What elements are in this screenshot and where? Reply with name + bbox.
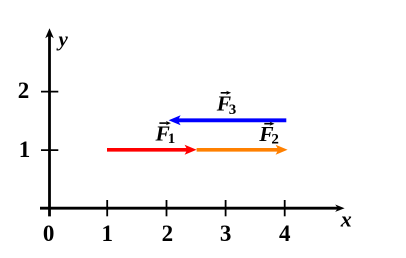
x-axis bbox=[40, 205, 345, 212]
svg-text:1: 1 bbox=[168, 131, 176, 147]
vector F3 (blue) bbox=[169, 115, 287, 125]
label F1 bbox=[155, 121, 176, 147]
svg-text:0: 0 bbox=[43, 221, 55, 246]
svg-text:2: 2 bbox=[162, 221, 174, 246]
svg-text:2: 2 bbox=[18, 78, 30, 103]
y-axis bbox=[45, 28, 54, 216]
vector F1 (red) bbox=[107, 145, 197, 155]
svg-text:3: 3 bbox=[229, 102, 237, 118]
x tick 2 bbox=[166, 200, 168, 216]
x tick 4 bbox=[284, 200, 286, 216]
svg-text:1: 1 bbox=[101, 221, 113, 246]
svg-text:4: 4 bbox=[279, 221, 291, 246]
label F3 bbox=[216, 91, 237, 118]
y tick 2 bbox=[41, 91, 58, 93]
label F2 bbox=[258, 122, 279, 148]
svg-text:1: 1 bbox=[19, 137, 31, 162]
vector F2 (orange) bbox=[197, 145, 288, 155]
svg-text:2: 2 bbox=[271, 132, 279, 148]
x tick 1 bbox=[106, 200, 108, 216]
y tick 1 bbox=[41, 149, 58, 151]
x tick 3 bbox=[225, 200, 227, 216]
svg-text:x: x bbox=[340, 207, 352, 232]
svg-text:y: y bbox=[56, 27, 69, 51]
svg-text:3: 3 bbox=[220, 221, 232, 246]
